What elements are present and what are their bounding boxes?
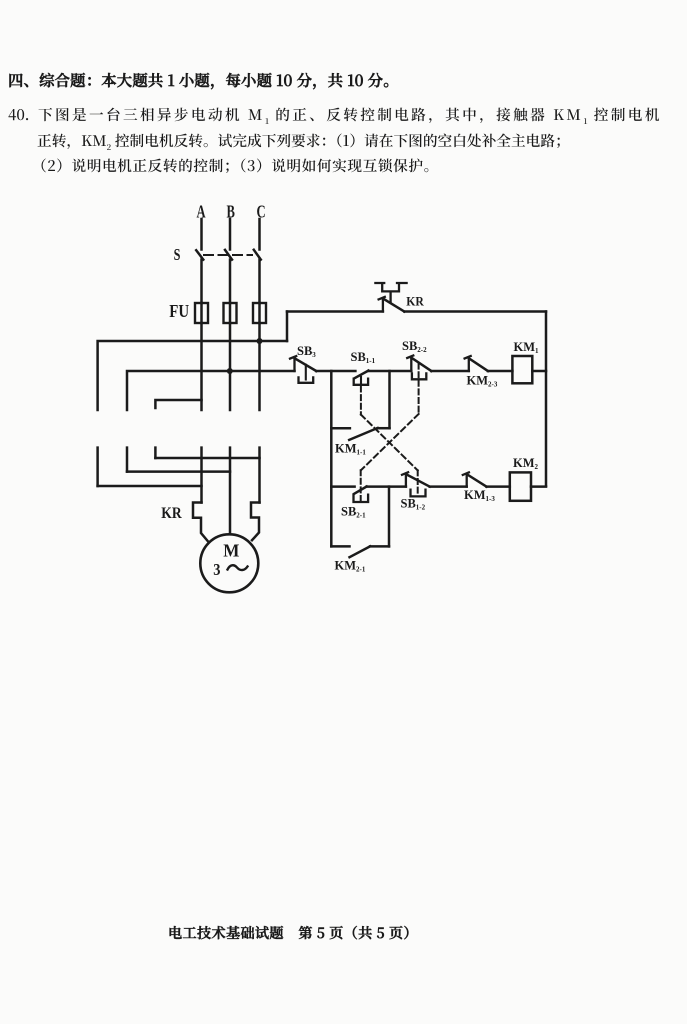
wire tap line from phase B to control row 1 <box>127 371 295 410</box>
junction dot phase C tap <box>257 338 263 344</box>
wire row1 SB3 to SB1-1 <box>316 370 355 373</box>
contact KM2-1 blade <box>350 546 371 557</box>
wire motor centre lead <box>229 448 232 535</box>
svg-text:3: 3 <box>213 561 220 579</box>
wire motor left lead upper <box>200 448 203 503</box>
wire phase B lower stub <box>229 323 232 410</box>
fuse FU phase C <box>253 303 266 323</box>
fuse FU phase B <box>224 303 237 323</box>
button SB2-2 stub and tick <box>407 356 413 372</box>
mechanical link SB2 diagonal dashed <box>361 414 419 470</box>
wire crossover line C to motor left <box>98 485 202 488</box>
wire tap line from phase C to control (upper horizontal) <box>98 341 287 410</box>
button SB1-2 stub and tick <box>402 472 408 486</box>
svg-text:KR: KR <box>161 505 182 522</box>
wire phase C upper <box>258 219 261 250</box>
question 40 line 2 <box>37 130 570 153</box>
button SB2-2 blade <box>412 358 432 371</box>
svg-text:SB2-2: SB2-2 <box>402 339 427 354</box>
wire motor right lead upper <box>258 448 261 503</box>
wire tap line from phase A short <box>155 400 201 408</box>
coil KM1 rectangle <box>512 356 532 383</box>
switch S pole A blade <box>196 250 203 259</box>
wire row1 SB2-2 to KM2-3 <box>431 370 469 373</box>
wire coil KM2 to right rail <box>531 485 546 488</box>
thermal relay KR contact label <box>406 294 425 309</box>
svg-text:KM2-3: KM2-3 <box>467 374 498 389</box>
node B phase label <box>227 202 235 222</box>
button SB1-1 cup <box>354 379 368 385</box>
wire row2 right <box>378 427 390 430</box>
coil KM2 rectangle <box>510 472 531 500</box>
contact KM1-3 blade <box>467 475 486 487</box>
wire KR row left <box>287 310 383 313</box>
mechanical link SB1 diagonal dashed <box>361 415 418 471</box>
switch S label <box>174 246 181 264</box>
button SB2-2 cup <box>412 373 426 379</box>
wire row2 left <box>331 427 350 430</box>
fuse FU label <box>169 302 189 321</box>
switch S pole B blade <box>225 250 232 260</box>
node C phase label <box>257 202 266 222</box>
contact KM1-3 stub and tick <box>463 472 469 486</box>
question 40 number <box>8 104 40 125</box>
button SB2-2 linkage dashed down <box>418 364 420 414</box>
heading section IV text <box>8 69 399 91</box>
thermal relay KR heater left <box>193 503 208 541</box>
wire left rail <box>330 371 333 546</box>
wire row1 SB1-1 to SB2-2 <box>368 370 411 373</box>
fuse FU phase A <box>195 303 208 323</box>
wire row3 KM1-3 to coil KM2 <box>487 485 510 488</box>
svg-text:FU: FU <box>169 302 189 321</box>
svg-text:KM1: KM1 <box>514 340 540 355</box>
button SB3 cup <box>299 377 314 382</box>
button SB2-1 blade <box>354 487 367 494</box>
question 40 line 3 <box>32 155 439 176</box>
svg-text:M: M <box>223 540 240 561</box>
button SB1-2 plunger dashed <box>417 470 419 496</box>
motor M letter <box>223 540 240 561</box>
thermal relay KR contact stub and tick <box>379 297 385 312</box>
svg-text:S: S <box>174 246 181 264</box>
svg-text:SB1-1: SB1-1 <box>351 350 376 365</box>
svg-text:KM1-1: KM1-1 <box>335 442 366 457</box>
thermal relay KR heater right <box>251 503 260 541</box>
button SB1-2 cup <box>411 490 426 497</box>
motor 3 label <box>213 561 220 579</box>
button SB1-2 blade <box>406 474 429 486</box>
node A phase label <box>197 202 207 222</box>
footer caption <box>168 923 418 943</box>
button SB2-1 cup <box>354 495 369 502</box>
svg-text:KR: KR <box>406 294 425 309</box>
junction dot phase B tap <box>227 368 233 374</box>
button SB1-1 linkage dashed down <box>360 387 362 415</box>
wire phase A to fuse <box>200 260 203 303</box>
wire riser to KR row <box>286 312 289 342</box>
thermal relay KR contact element symbol <box>375 283 406 301</box>
question 40 line 1 <box>38 104 662 127</box>
wire row1 KM2-3 to coil KM1 <box>488 370 513 373</box>
contact KM1-1 blade <box>349 428 377 440</box>
wire row3 SB2-1 to SB1-2 <box>367 485 406 488</box>
wire crossover line B to motor centre <box>127 470 230 473</box>
svg-text:KM1-3: KM1-3 <box>464 488 495 503</box>
svg-text:SB1-2: SB1-2 <box>401 497 426 512</box>
thermal relay KR contact blade <box>383 299 404 312</box>
wire phase C lower stub <box>258 323 261 410</box>
wire phase C to fuse <box>258 260 261 303</box>
wire lower-left stub 3 <box>154 448 157 458</box>
wire right rail <box>545 312 548 487</box>
wire row4 left <box>331 545 349 548</box>
button SB1-1 plunger <box>360 377 362 385</box>
thermal relay KR label (main circuit) <box>161 505 182 522</box>
wire lower-left stub 1 <box>96 448 99 486</box>
wire phase B upper <box>229 219 232 250</box>
wire KR row right to rail <box>404 310 546 313</box>
button SB3 blade <box>295 358 316 371</box>
contact KM2-3 blade <box>469 359 488 372</box>
button SB3 stub and tick <box>290 356 296 371</box>
wire row3 left <box>331 485 354 488</box>
switch S linkage dashed <box>204 254 252 256</box>
wire coil KM1 to right rail <box>532 370 546 373</box>
wire phase B to fuse <box>229 260 232 303</box>
svg-text:C: C <box>257 202 266 222</box>
wire rail row3 junction down <box>388 487 391 547</box>
motor tilde <box>228 565 248 570</box>
wire row3 SB1-2 to KM1-3 <box>430 485 467 488</box>
button SB3 plunger <box>305 365 307 380</box>
wire lower-left stub 2 <box>126 448 129 472</box>
contact KM2-3 stub and tick <box>465 356 471 371</box>
svg-text:KM2-1: KM2-1 <box>335 559 366 574</box>
wire rail row2 up to row1 <box>388 371 391 428</box>
wire row4 right <box>370 545 389 548</box>
wire crossover line A to motor right <box>155 457 259 460</box>
svg-text:SB3: SB3 <box>297 344 316 359</box>
button SB2-1 plunger dashed <box>360 470 362 500</box>
motor M circle <box>200 534 258 592</box>
switch S pole C blade <box>254 250 261 260</box>
svg-text:KM2: KM2 <box>513 456 539 471</box>
wire phase A lower stub <box>200 323 203 410</box>
button SB1-1 blade <box>354 371 368 379</box>
wire phase A upper <box>200 219 203 250</box>
svg-text:SB2-1: SB2-1 <box>341 505 366 520</box>
